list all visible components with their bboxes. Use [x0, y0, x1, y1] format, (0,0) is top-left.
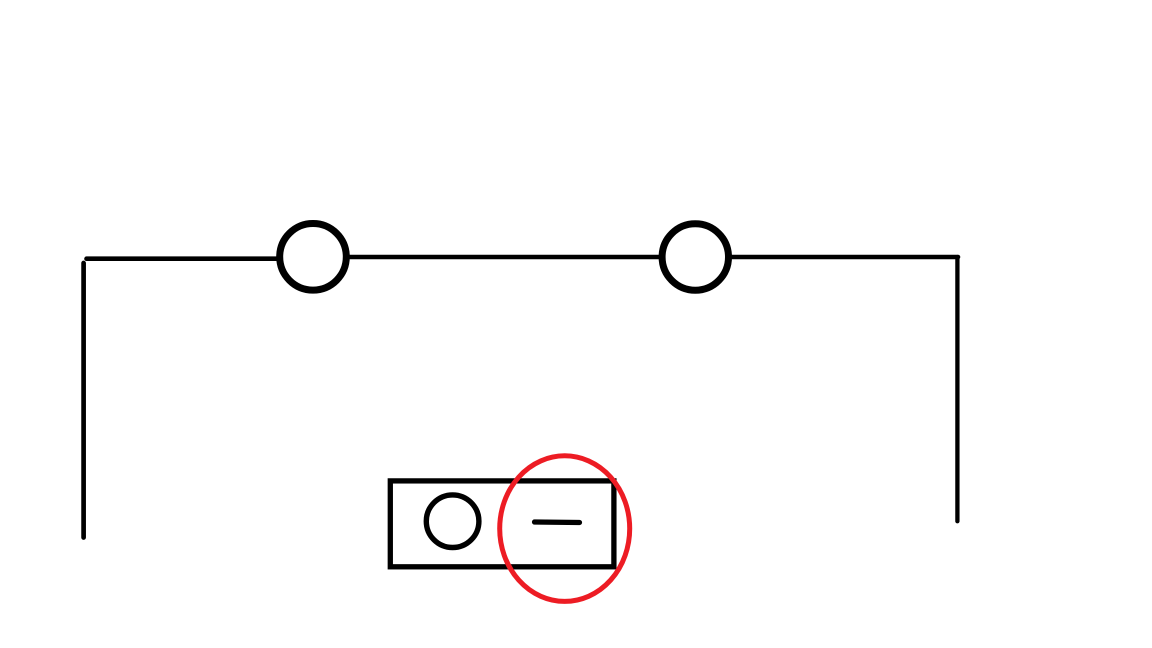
wire: top horizontal from left corner to right corner	[87, 257, 959, 259]
battery terminal circle	[426, 495, 479, 548]
battery minus sign	[535, 519, 580, 525]
battery box outline	[390, 481, 614, 567]
wire: left vertical branch	[81, 263, 86, 538]
component circle 2 (lamp/meter in top wire, right)	[662, 224, 728, 290]
wire: right vertical branch	[955, 257, 959, 521]
red annotation ellipse around minus sign	[500, 456, 630, 602]
component circle 1 (lamp/meter in top wire, left)	[280, 223, 347, 290]
